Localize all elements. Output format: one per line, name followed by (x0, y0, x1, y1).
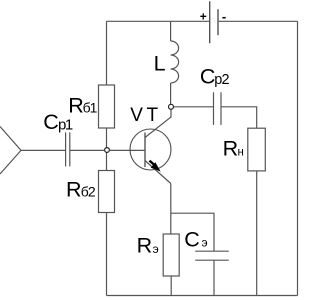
capacitor Ce (195, 250, 229, 252)
wire node B to Cp2 (174, 106, 214, 108)
transistor VT emitter arrow (150, 161, 156, 166)
wire emitter down (170, 184, 172, 235)
wire bottom rail (107, 295, 298, 297)
svg-text:p1: p1 (58, 116, 73, 133)
svg-text:C: C (200, 65, 216, 89)
svg-text:э: э (202, 236, 208, 250)
svg-text:н: н (238, 147, 244, 159)
resistor R62 (99, 171, 115, 213)
svg-text:C: C (184, 227, 200, 251)
wire R62 to bottom rail (106, 213, 108, 296)
svg-text:R: R (68, 94, 84, 118)
resistor R61 (99, 85, 115, 128)
wire Ce to bottom rail (213, 260, 215, 295)
svg-text:э: э (153, 242, 159, 256)
wire Cp1 to node A (70, 149, 104, 151)
svg-text:R: R (137, 234, 153, 258)
wire R61 to node A (106, 128, 108, 148)
wire right rail (297, 21, 299, 295)
svg-text:+: + (200, 9, 207, 23)
resistor Rn (248, 128, 265, 171)
wire node A down to R62 (106, 153, 108, 171)
capacitor Cp2 (213, 92, 215, 125)
input source symbol (0, 127, 21, 175)
capacitor Cp1 (65, 132, 67, 166)
resistor Re (163, 234, 179, 276)
wire Cp2 to Rn (221, 107, 257, 128)
wire node A to base (110, 149, 146, 151)
node A (105, 148, 110, 153)
svg-text:p2: p2 (214, 72, 229, 88)
svg-text:б2: б2 (81, 184, 96, 200)
wire left rail top (106, 21, 108, 85)
wire top rail left segment (107, 20, 210, 22)
wire top rail right segment (219, 20, 298, 22)
wire Rn to bottom rail (256, 171, 258, 296)
node B (169, 104, 174, 109)
svg-text:VT: VT (130, 105, 161, 126)
wire coil to node B (170, 83, 172, 104)
svg-text:L: L (154, 52, 166, 76)
svg-text:R: R (66, 178, 82, 202)
wire Re to bottom rail (170, 276, 172, 296)
wire emitter junction to Ce (171, 213, 214, 251)
transistor VT collector lead (145, 109, 171, 137)
wire coil top to rail (170, 21, 172, 41)
svg-text:R: R (223, 136, 239, 160)
battery positive plate (long) (209, 1, 211, 43)
battery negative plate (short) (217, 9, 219, 35)
transistor VT base bar (144, 133, 146, 168)
svg-text:б1: б1 (83, 100, 98, 116)
inductor L (171, 41, 179, 83)
transistor VT emitter lead (145, 161, 171, 184)
wire input to Cp1 (21, 149, 66, 151)
svg-text:C: C (43, 110, 59, 134)
transistor VT body circle (130, 129, 171, 170)
svg-text:-: - (222, 9, 226, 24)
